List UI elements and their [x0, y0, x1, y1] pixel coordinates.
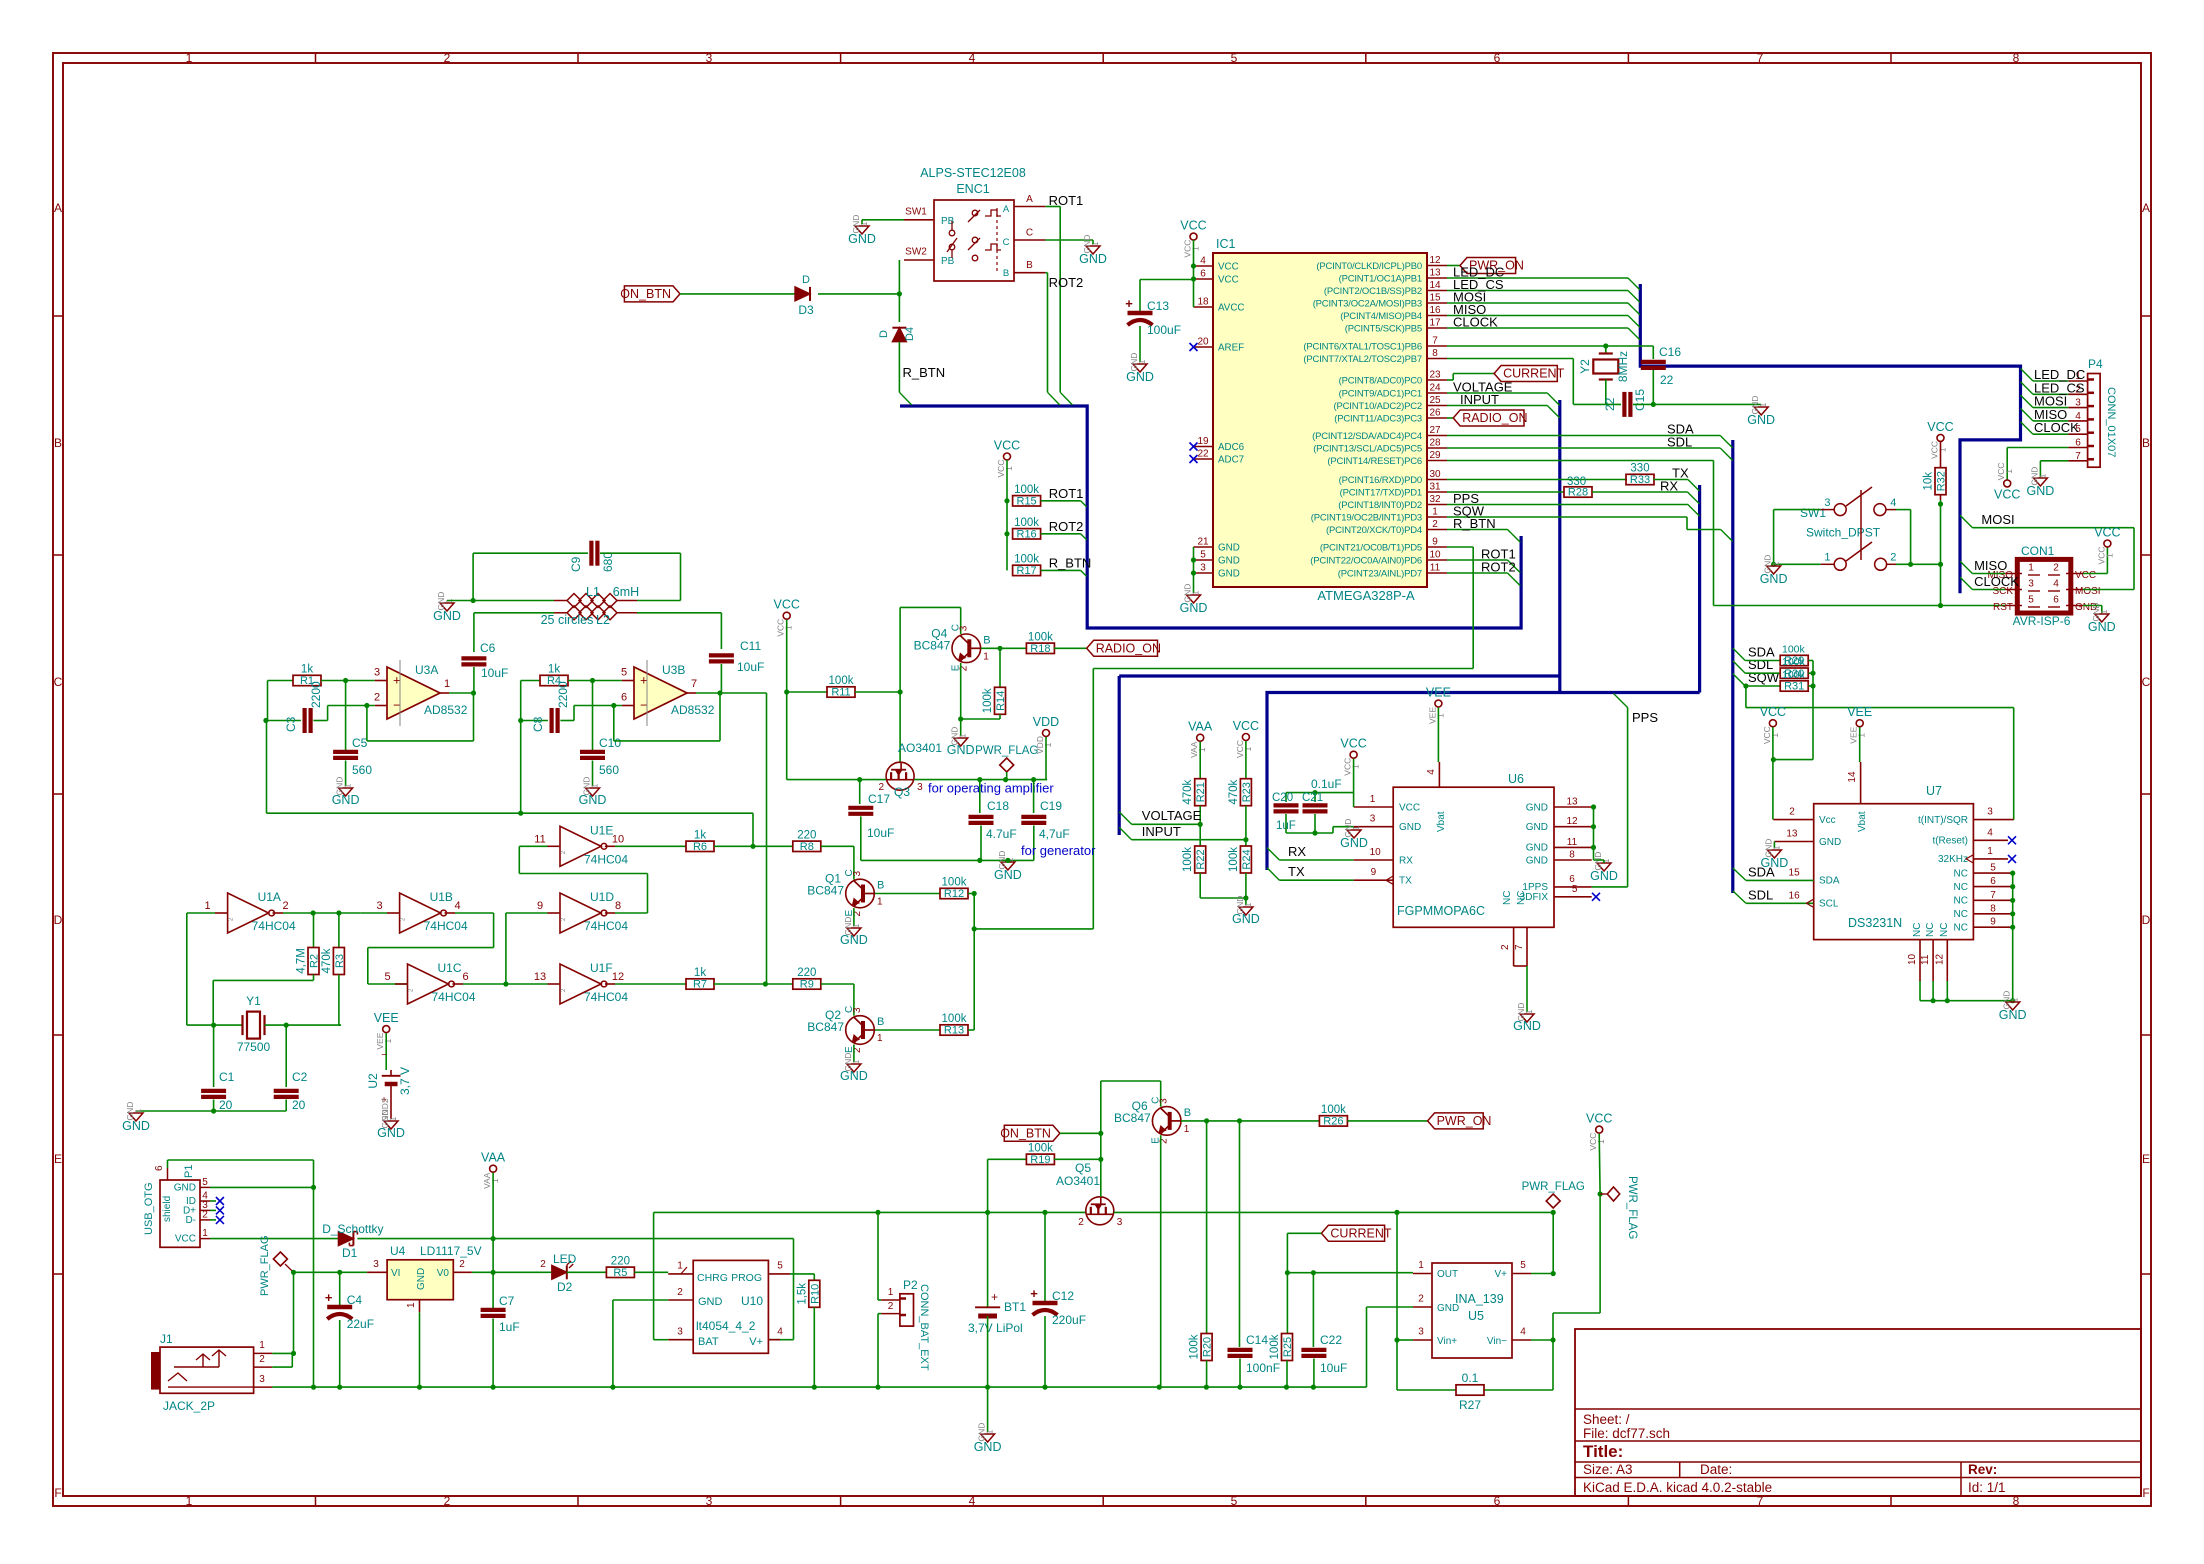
- svg-text:ENC1: ENC1: [956, 182, 989, 196]
- svg-text:CHRG: CHRG: [697, 1272, 728, 1284]
- svg-text:32KHz: 32KHz: [1938, 854, 1968, 865]
- bus A encoder to ATmega PD pins: [900, 406, 1521, 628]
- svg-text:GND: GND: [416, 1268, 427, 1290]
- svg-text:GND: GND: [1232, 912, 1260, 926]
- svg-text:B: B: [877, 880, 884, 892]
- svg-text:R8: R8: [800, 841, 814, 853]
- pin 25 (PCINT10/ADC2)PC2: [1427, 405, 1447, 407]
- C22 vertical: [1312, 1273, 1314, 1347]
- svg-text:1: 1: [677, 1261, 683, 1272]
- svg-text:3: 3: [1824, 497, 1830, 509]
- svg-text:PWR_FLAG: PWR_FLAG: [1626, 1176, 1638, 1239]
- svg-text:VEE: VEE: [1847, 705, 1872, 719]
- svg-text:470k: 470k: [1228, 779, 1240, 804]
- capacitor C13 100uF: [1140, 279, 1194, 281]
- svg-text:3: 3: [1200, 563, 1206, 574]
- svg-text:3: 3: [1987, 807, 1993, 818]
- J1 pin2: [254, 1366, 273, 1368]
- svg-text:12: 12: [1429, 255, 1441, 266]
- resistor R7 1k: [615, 983, 686, 985]
- op-amp U3B AD8532: [634, 667, 687, 719]
- U3B feedback loop: [719, 693, 721, 741]
- svg-text:1: 1: [1351, 825, 1361, 830]
- P1 GND wire: [210, 1186, 314, 1188]
- svg-text:3: 3: [2028, 579, 2034, 590]
- resistor R9 220: [765, 983, 792, 985]
- svg-text:D3: D3: [798, 303, 814, 317]
- source-drain rail: [787, 779, 886, 781]
- P1 pin 5 GND: [200, 1186, 210, 1188]
- svg-text:C18: C18: [987, 799, 1009, 813]
- svg-text:3: 3: [373, 1259, 379, 1270]
- svg-text:R10: R10: [809, 1284, 821, 1304]
- svg-text:9: 9: [1432, 537, 1438, 548]
- svg-text:1: 1: [1524, 1009, 1534, 1014]
- svg-text:10uF: 10uF: [867, 826, 894, 840]
- svg-text:TX: TX: [1288, 864, 1305, 879]
- svg-text:3,7V LiPol: 3,7V LiPol: [968, 1321, 1023, 1335]
- svg-text:1: 1: [1418, 1260, 1424, 1271]
- regulator U4 LD1117_5V: [387, 1260, 453, 1300]
- wire MOSI: [1447, 302, 1628, 304]
- svg-text:GND: GND: [1340, 836, 1368, 850]
- svg-text:32: 32: [1429, 494, 1441, 505]
- bus F LED/SPI to P4 and CON1: [1640, 284, 2020, 593]
- svg-text:1: 1: [1596, 1139, 1606, 1144]
- capacitor C10 560 to GND: [592, 681, 594, 751]
- capacitor C16 22: [1641, 360, 1666, 364]
- svg-text:t(Reset): t(Reset): [1932, 836, 1968, 847]
- MOSFET Q3 AO3401 gate wire: [899, 692, 901, 763]
- svg-text:+: +: [1125, 296, 1133, 311]
- U7 pin4 reset nc: [1973, 839, 2008, 841]
- svg-text:1: 1: [186, 51, 193, 65]
- svg-text:L2: L2: [596, 613, 610, 627]
- svg-text:C19: C19: [1040, 799, 1062, 813]
- svg-text:AO3401: AO3401: [1056, 1174, 1100, 1188]
- svg-text:DS3231N: DS3231N: [1848, 916, 1902, 930]
- bus D SDA/SDL/SQW: [1731, 440, 1734, 893]
- battery rail: [654, 1211, 1086, 1213]
- pin 9 TX: [1267, 868, 1279, 880]
- svg-text:GND: GND: [1526, 822, 1548, 833]
- svg-text:VCC: VCC: [175, 1234, 196, 1245]
- svg-text:MOSI: MOSI: [2075, 586, 2101, 597]
- SW1 pin4 wire: [1886, 509, 1896, 511]
- capacitor C1 20: [213, 1025, 215, 1087]
- svg-text:RX: RX: [1399, 855, 1413, 866]
- svg-text:(PCINT22/OC0A/AIN0)PD6: (PCINT22/OC0A/AIN0)PD6: [1310, 555, 1422, 566]
- junction: [897, 291, 902, 296]
- U10 pin1 CHRG: [668, 1273, 693, 1275]
- svg-text:AO3401: AO3401: [898, 741, 942, 755]
- svg-text:4: 4: [1890, 497, 1896, 509]
- svg-text:(PCINT1/OC1A)PB1: (PCINT1/OC1A)PB1: [1339, 273, 1422, 284]
- Q2 emitter GND: [853, 1045, 855, 1063]
- svg-text:1: 1: [383, 1038, 393, 1043]
- wire L2 left to C6: [473, 613, 475, 652]
- svg-text:1: 1: [590, 783, 600, 788]
- svg-text:IC1: IC1: [1216, 237, 1236, 251]
- svg-text:C15: C15: [1633, 389, 1647, 411]
- svg-text:1: 1: [1197, 747, 1207, 752]
- svg-text:VCC: VCC: [1218, 274, 1239, 285]
- wire R11 to Q4 collector loop: [899, 607, 901, 692]
- pin 11 (PCINT23/AINL)PD7: [1427, 572, 1447, 574]
- U1D out to U1E in: [615, 912, 648, 914]
- resistor R3 470k vertical: [338, 913, 340, 948]
- svg-text:PROG: PROG: [731, 1272, 762, 1284]
- svg-text:C: C: [2142, 675, 2151, 689]
- svg-text:P2: P2: [903, 1278, 918, 1292]
- capacitor C19 4.7uF: [1033, 780, 1035, 813]
- svg-text:22uF: 22uF: [347, 1317, 374, 1331]
- bottom ground rail: [272, 1386, 1366, 1388]
- svg-text:U6: U6: [1508, 772, 1524, 786]
- wire SDA to bus D: [1447, 435, 1720, 437]
- svg-text:GND: GND: [1760, 572, 1788, 586]
- svg-text:GND: GND: [1437, 1303, 1459, 1314]
- svg-text:12: 12: [1934, 953, 1945, 965]
- svg-text:GND: GND: [1399, 822, 1421, 833]
- svg-text:5: 5: [1231, 1494, 1238, 1508]
- svg-text:C: C: [54, 675, 63, 689]
- wire LED_DC: [1447, 277, 1628, 279]
- svg-text:AVCC: AVCC: [1218, 302, 1245, 313]
- svg-text:R27: R27: [1459, 1398, 1481, 1412]
- svg-text:GND: GND: [122, 1119, 150, 1133]
- pin 18 AVCC: [1194, 306, 1214, 308]
- bus C RX/TX/PPS to U6: [1267, 693, 1700, 871]
- svg-text:8: 8: [2013, 51, 2020, 65]
- svg-text:10: 10: [612, 833, 624, 845]
- svg-text:100k: 100k: [1028, 1142, 1053, 1154]
- svg-text:INA_139: INA_139: [1455, 1292, 1504, 1306]
- svg-text:VEE: VEE: [374, 1011, 399, 1025]
- svg-text:R11: R11: [831, 687, 850, 699]
- pin 1 VCC: [1354, 806, 1394, 808]
- svg-text:4,7M: 4,7M: [296, 948, 308, 974]
- svg-text:2: 2: [444, 51, 451, 65]
- svg-text:GND: GND: [377, 1126, 405, 1140]
- svg-text:VCC: VCC: [994, 439, 1020, 453]
- pin 8 (PCINT7/XTAL2/TOSC2)PB7: [1427, 358, 1447, 360]
- svg-text:C17: C17: [868, 792, 890, 806]
- svg-text:25: 25: [1429, 395, 1441, 406]
- svg-text:NC: NC: [1954, 882, 1968, 893]
- P4 pin 6: [2068, 447, 2087, 449]
- svg-text:LED: LED: [553, 1252, 577, 1266]
- svg-text:(PCINT0/CLKD/ICPL)PB0: (PCINT0/CLKD/ICPL)PB0: [1316, 261, 1422, 272]
- power VEE above U7: [1856, 720, 1863, 727]
- VCC rail to ATmega: [1190, 233, 1197, 240]
- svg-text:1: 1: [1243, 902, 1253, 907]
- pin 1 (PCINT19/OC2B/INT1)PD3: [1427, 516, 1447, 518]
- svg-text:R6: R6: [693, 841, 707, 853]
- U5 pin2 GND: [1413, 1306, 1432, 1308]
- svg-text:3: 3: [706, 51, 713, 65]
- pin 5 3DFIX nc: [1554, 896, 1592, 898]
- RTC U7 DS3231N: [1814, 804, 1974, 940]
- jack J1 JACK_2P: [160, 1347, 254, 1393]
- svg-text:8: 8: [615, 900, 621, 912]
- inverter U1F 74HC04: [560, 964, 601, 1004]
- svg-text:1: 1: [205, 900, 211, 912]
- svg-text:1: 1: [186, 1494, 193, 1508]
- svg-text:1: 1: [1043, 742, 1053, 747]
- svg-text:E: E: [2142, 1152, 2150, 1166]
- svg-text:+: +: [325, 1290, 333, 1305]
- ATmega GND pins to ground: [1193, 547, 1195, 593]
- J1 pin3: [254, 1386, 273, 1388]
- wire INPUT to bus: [1447, 405, 1547, 407]
- Q6 base wire: [1181, 1120, 1319, 1122]
- svg-text:C6: C6: [480, 641, 496, 655]
- svg-text:100k: 100k: [1189, 1334, 1201, 1359]
- svg-text:3: 3: [1117, 1217, 1123, 1228]
- svg-text:3: 3: [917, 782, 923, 793]
- svg-text:5: 5: [202, 1177, 208, 1188]
- svg-text:GND: GND: [1747, 413, 1775, 427]
- svg-text:100k: 100k: [1782, 644, 1806, 656]
- svg-text:5: 5: [2028, 595, 2034, 606]
- cap ground rail: [861, 859, 1034, 861]
- GPS module U6 FGPMMOPA6C: [1393, 787, 1554, 927]
- svg-text:J1: J1: [160, 1332, 173, 1346]
- svg-text:C11: C11: [740, 639, 761, 653]
- svg-text:R20: R20: [1202, 1337, 1214, 1357]
- svg-text:5: 5: [384, 971, 390, 983]
- svg-text:7: 7: [1757, 51, 1764, 65]
- svg-text:PWR_FLAG: PWR_FLAG: [975, 745, 1038, 757]
- svg-text:1: 1: [388, 1116, 398, 1121]
- svg-text:VCC: VCC: [1994, 487, 2020, 501]
- svg-text:28: 28: [1429, 438, 1441, 449]
- svg-text:SW1: SW1: [1800, 506, 1826, 520]
- capacitor C9 680: [472, 553, 474, 600]
- svg-text:1: 1: [1351, 764, 1361, 769]
- svg-text:GND: GND: [1819, 837, 1841, 848]
- svg-text:74HC04: 74HC04: [584, 990, 628, 1004]
- wire VOLTAGE to bus: [1447, 392, 1547, 394]
- pin 7 (PCINT6/XTAL1/TOSC1)PB6: [1427, 345, 1447, 347]
- svg-text:U2: U2: [366, 1073, 380, 1089]
- SDA SDL SQW pullups R29 R30 R31: [1733, 648, 1745, 660]
- svg-text:AREF: AREF: [1218, 342, 1244, 353]
- pin 32 (PCINT18/INT0)PD2: [1427, 504, 1447, 506]
- svg-text:R19: R19: [1030, 1154, 1050, 1166]
- P4 pin 7: [2068, 460, 2087, 462]
- svg-text:3: 3: [958, 625, 969, 631]
- svg-text:MISO: MISO: [1974, 558, 2007, 573]
- svg-text:NC: NC: [1925, 923, 1936, 937]
- resistor R33 330 TX: [1447, 479, 1627, 481]
- pullups R15 R16 R17 with VCC: [1004, 453, 1011, 460]
- pin 31 (PCINT17/TXD)PD1: [1427, 491, 1447, 493]
- U7 pin13 GND: [1774, 841, 1813, 843]
- svg-text:7: 7: [1990, 890, 1996, 901]
- svg-text:3: 3: [1370, 814, 1376, 825]
- svg-text:GND: GND: [698, 1296, 723, 1308]
- svg-text:1: 1: [343, 783, 353, 788]
- feedback line to R6/R8 node: [267, 812, 754, 814]
- svg-text:23: 23: [1429, 370, 1441, 381]
- svg-text:6: 6: [1494, 1494, 1501, 1508]
- svg-text:(PCINT5/SCK)PB5: (PCINT5/SCK)PB5: [1345, 323, 1422, 334]
- pin 14 (PCINT2/OC1B/SS)PB2: [1427, 290, 1447, 292]
- svg-text:11: 11: [1430, 563, 1441, 574]
- resistor R1 1k: [268, 680, 294, 682]
- svg-text:1: 1: [877, 1033, 883, 1044]
- svg-text:R15: R15: [1017, 495, 1037, 507]
- pin 20 AREF: [1194, 346, 1214, 348]
- svg-text:SDL: SDL: [1748, 887, 1773, 902]
- svg-text:NC: NC: [1912, 923, 1923, 937]
- inverter U1B 74HC04: [400, 893, 441, 933]
- pin 3 GND: [1354, 826, 1394, 828]
- U6 right GND pins: [1554, 806, 1592, 808]
- wire XTAL2 to C15: [1447, 358, 1573, 360]
- power VAA: [490, 1165, 497, 1172]
- svg-text:Y2: Y2: [1578, 359, 1592, 374]
- svg-text:(PCINT8/ADC0)PC0: (PCINT8/ADC0)PC0: [1339, 375, 1422, 386]
- svg-text:26: 26: [1429, 408, 1441, 419]
- svg-text:(PCINT10/ADC2)PC2: (PCINT10/ADC2)PC2: [1334, 401, 1422, 412]
- svg-text:D: D: [802, 274, 810, 286]
- svg-text:R2: R2: [309, 954, 321, 968]
- P4 pin 2: [2068, 393, 2087, 395]
- svg-text:1: 1: [2099, 609, 2109, 614]
- svg-text:C16: C16: [1659, 345, 1681, 359]
- svg-text:77500: 77500: [237, 1040, 271, 1054]
- wire ROT1 to bus A: [1447, 559, 1508, 561]
- P1 pin 4 ID: [200, 1200, 210, 1202]
- SW1 pin2 wire to R32 node: [1887, 563, 1896, 565]
- svg-text:5: 5: [1520, 1260, 1526, 1271]
- svg-text:AD8532: AD8532: [671, 703, 715, 717]
- svg-text:GND: GND: [1218, 568, 1240, 579]
- svg-text:1: 1: [490, 1178, 500, 1183]
- svg-text:U1F: U1F: [590, 961, 613, 975]
- svg-text:14: 14: [1429, 280, 1441, 291]
- svg-text:C: C: [1003, 237, 1010, 248]
- svg-text:A: A: [1003, 204, 1010, 215]
- svg-text:VI: VI: [391, 1268, 400, 1279]
- resistors R22 R24 divider bottom: [1199, 824, 1201, 846]
- svg-text:3: 3: [259, 1374, 265, 1385]
- svg-text:7: 7: [691, 678, 697, 690]
- svg-text:10: 10: [1429, 550, 1441, 561]
- svg-text:Y1: Y1: [246, 994, 261, 1008]
- pin 3 GND: [1194, 572, 1214, 574]
- svg-text:GND: GND: [840, 1069, 868, 1083]
- svg-text:U4: U4: [390, 1244, 406, 1258]
- svg-text:2: 2: [540, 1259, 546, 1270]
- resistor R4 1k: [521, 680, 540, 682]
- wire Q4 base to R18: [981, 647, 1027, 649]
- svg-text:25 circles: 25 circles: [541, 613, 594, 627]
- svg-text:SDA: SDA: [1748, 864, 1775, 879]
- svg-text:Q3: Q3: [894, 785, 910, 799]
- svg-text:100nF: 100nF: [1246, 1361, 1280, 1375]
- svg-text:RST: RST: [1993, 602, 2013, 613]
- capacitor C15 22: [1622, 392, 1626, 417]
- P4 pin6 VCC: [2007, 447, 2068, 449]
- capacitor C11 10uF: [709, 653, 734, 657]
- svg-text:R13: R13: [944, 1025, 964, 1037]
- svg-text:TX: TX: [1399, 876, 1412, 887]
- svg-text:Q5: Q5: [1075, 1161, 1091, 1175]
- svg-text:3: 3: [852, 871, 863, 877]
- svg-text:220uF: 220uF: [1052, 1313, 1086, 1327]
- capacitor C2 20: [285, 1025, 287, 1087]
- U10 pin3 BAT: [668, 1339, 693, 1341]
- svg-text:ON_BTN: ON_BTN: [1000, 1127, 1051, 1141]
- svg-text:F: F: [54, 1486, 61, 1500]
- svg-text:2: 2: [444, 1494, 451, 1508]
- svg-text:GND: GND: [1218, 542, 1240, 553]
- capacitor C3 2200: [266, 720, 301, 722]
- svg-text:RX: RX: [1660, 479, 1678, 494]
- svg-text:19: 19: [1197, 436, 1209, 447]
- resistor R18 100k: [1026, 643, 1054, 653]
- svg-text:VEE: VEE: [1426, 686, 1451, 700]
- C14 vertical from Q6 base: [1239, 1121, 1241, 1347]
- capacitor C17 10uF: [859, 780, 861, 804]
- svg-text:ROT2: ROT2: [1049, 275, 1084, 290]
- svg-text:1: 1: [851, 923, 861, 928]
- transistor Q1 BC847: [846, 879, 875, 908]
- U10 pin4 V+: [768, 1339, 780, 1341]
- svg-text:560: 560: [352, 763, 372, 777]
- svg-text:D: D: [54, 913, 63, 927]
- P4 pin 5: [2068, 433, 2087, 435]
- LED D2: [552, 1265, 567, 1279]
- resistor R32 10k vertical: [1935, 468, 1946, 495]
- svg-text:1: 1: [1137, 359, 1147, 364]
- svg-text:ROT2: ROT2: [1049, 519, 1084, 534]
- svg-text:NC: NC: [1954, 923, 1968, 934]
- svg-text:2: 2: [1890, 552, 1896, 564]
- SQW net to U7 pin3: [1745, 686, 1747, 708]
- svg-text:9: 9: [1990, 917, 1996, 928]
- svg-text:CLOCK: CLOCK: [1974, 574, 2019, 589]
- svg-text:9: 9: [1371, 867, 1377, 878]
- svg-text:File: dcf77.sch: File: dcf77.sch: [1583, 1426, 1670, 1441]
- svg-text:1: 1: [1601, 858, 1611, 863]
- svg-text:7: 7: [1514, 944, 1525, 950]
- svg-text:U1A: U1A: [258, 890, 281, 904]
- resistor R8 220: [753, 845, 793, 847]
- svg-text:VAA: VAA: [481, 1151, 506, 1165]
- resistors R21 R23 voltage divider top: [1197, 734, 1204, 741]
- resistor R11 100k: [787, 691, 827, 693]
- P1 pin 2 D-: [200, 1219, 210, 1221]
- svg-text:Vbat: Vbat: [1436, 811, 1447, 832]
- svg-text:13: 13: [534, 971, 546, 983]
- diode D4: [892, 328, 906, 342]
- svg-text:C10: C10: [599, 736, 621, 750]
- inverter U1A 74HC04: [228, 893, 269, 933]
- svg-text:1: 1: [1243, 746, 1253, 751]
- svg-text:680: 680: [601, 552, 615, 572]
- VOLTAGE wire from bus B: [1119, 812, 1131, 824]
- svg-text:BC847: BC847: [914, 638, 951, 652]
- svg-text:1: 1: [2010, 997, 2020, 1002]
- svg-text:D1: D1: [342, 1246, 358, 1260]
- pin 16 (PCINT4/MISO)PB4: [1427, 315, 1447, 317]
- svg-text:A: A: [2142, 201, 2150, 215]
